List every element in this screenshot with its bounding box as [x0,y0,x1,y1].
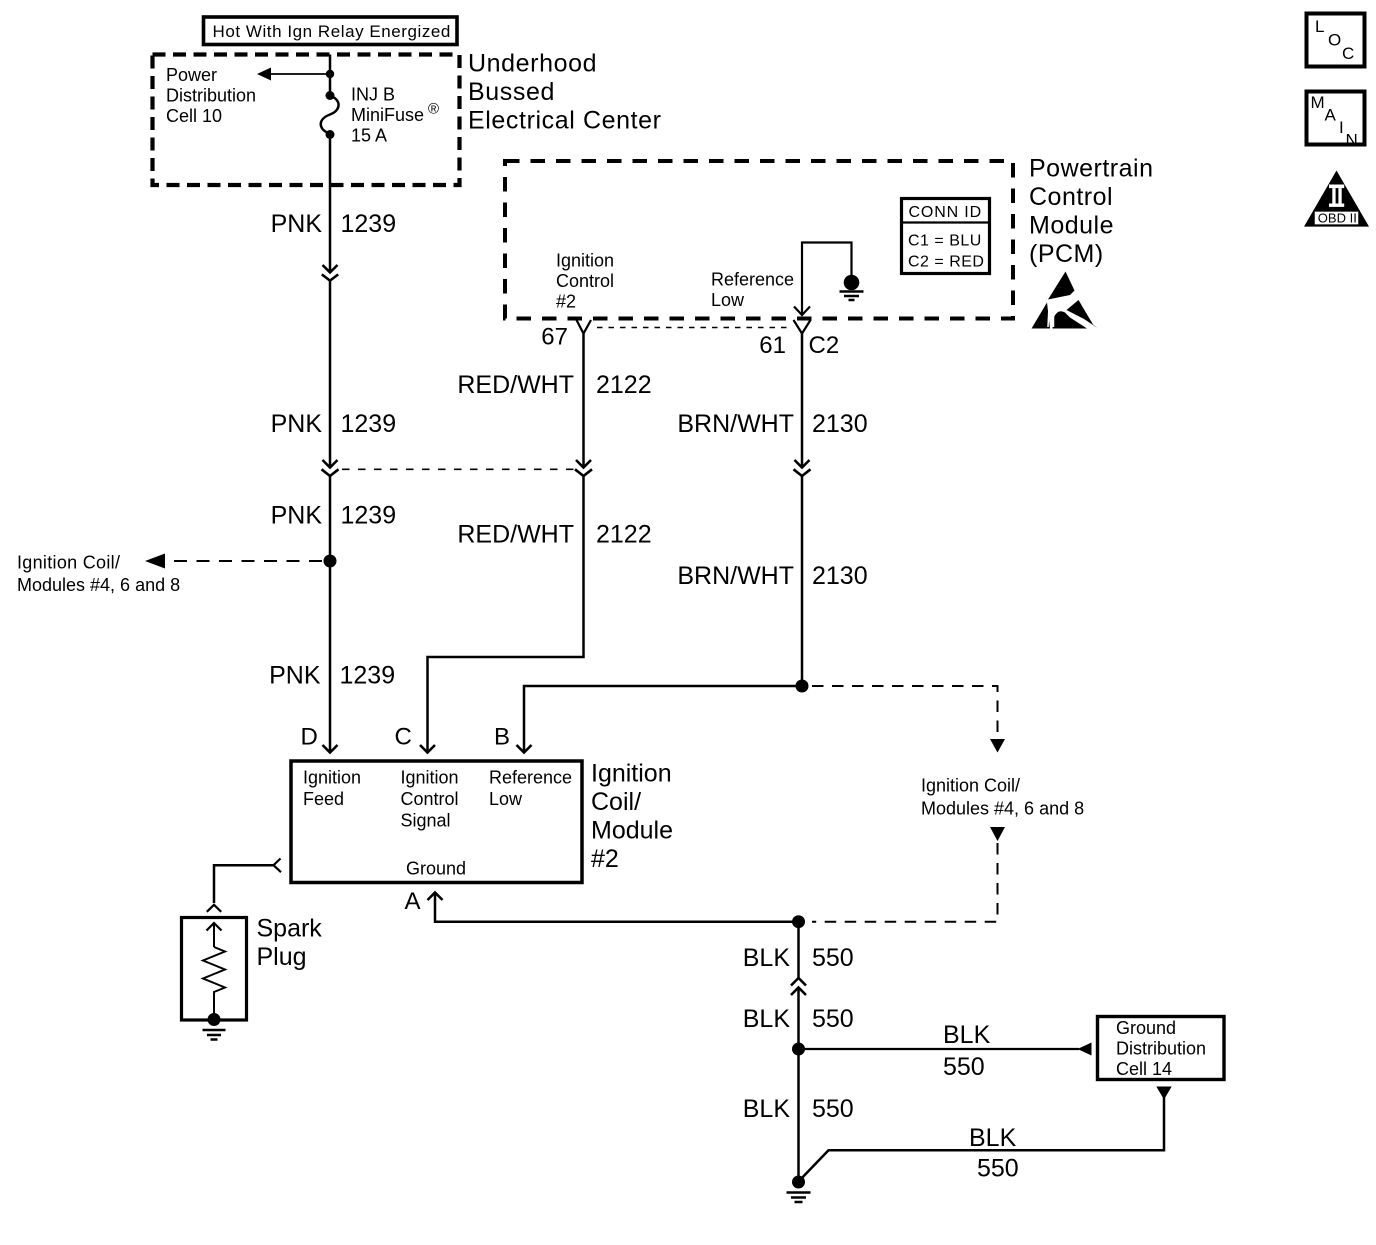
box: Powertrain Control Module PCM (dashed) [505,161,1013,319]
label: Reference Low (PCM pin) [711,270,794,311]
svg-text:Distribution: Distribution [166,86,256,106]
svg-text:INJ B: INJ B [351,85,395,105]
svg-text:1239: 1239 [340,662,396,690]
wire: BLK 550 segment 2 [797,988,800,1050]
wire: dashed branch right to Ignition Coil Modules 4 6 8 [812,686,1005,753]
svg-text:550: 550 [943,1053,985,1081]
svg-text:#2: #2 [591,845,619,873]
svg-text:A: A [1325,106,1337,125]
ground: main ground G103 [787,1176,811,1203]
svg-text:M: M [1311,93,1325,112]
svg-text:1239: 1239 [341,410,397,438]
wire: BLK 550 segment 3 down to ground [797,1049,800,1177]
connector: pin A arrow into coil ground [428,893,799,922]
svg-text:Powertrain: Powertrain [1029,155,1154,183]
svg-text:Control: Control [556,271,614,291]
label: Ignition Coil / Modules #4, 6 and 8 (right) [921,776,1084,819]
node: junction BRN/WHT splits to pin B and other modules [796,680,809,693]
svg-text:I: I [1339,118,1344,137]
resistor: spark plug gap zigzag [203,947,225,1018]
svg-text:550: 550 [977,1155,1019,1183]
box: Underhood Bussed Electrical Center (dashed) [153,55,460,186]
svg-text:Feed: Feed [303,789,344,809]
box: Spark Plug [182,918,247,1021]
icon: ESD sensitive symbol [1032,272,1098,329]
svg-text:Ground: Ground [1116,1018,1176,1038]
svg-text:OBD II: OBD II [1318,210,1357,225]
connector: arrow from Ground Distribution to ground wire [799,1087,1172,1182]
svg-text:Plug: Plug [257,943,307,971]
icon: OBD II triangle [1304,171,1369,227]
wire: coil to spark plug [214,865,274,903]
svg-text:BLK: BLK [969,1124,1017,1152]
label: BLK 550 (row 3) [743,1095,854,1123]
svg-text:Low: Low [489,789,523,809]
box: CONN ID table [902,199,990,274]
svg-text:550: 550 [812,944,854,972]
svg-text:C: C [395,724,412,751]
connector: PCM pin 61 fork [794,320,811,334]
svg-text:Control: Control [1029,183,1113,211]
wire: dashed branch continues down to ground junction [812,827,1005,922]
svg-text:Electrical Center: Electrical Center [468,107,662,135]
connector: pin B arrow into coil [517,745,532,753]
svg-text:A: A [405,888,421,915]
svg-text:Module: Module [591,817,673,845]
svg-text:D: D [301,724,318,751]
label: Powertrain Control Module (PCM) [1029,155,1154,269]
wire: dashed branch to Ignition Coil Modules 4 6 8 (left) with arrow [145,554,322,569]
connector: inline connector on PNK wire (arrow + fork) [322,460,339,476]
svg-text:BRN/WHT: BRN/WHT [677,562,794,590]
svg-text:Low: Low [711,290,745,310]
wire: branch to Ground Distribution Cell 14 with arrow [799,1043,1092,1056]
svg-text:Reference: Reference [489,768,572,788]
svg-text:C2 = RED: C2 = RED [908,254,984,271]
svg-text:Ignition: Ignition [303,768,361,788]
ground: spark plug ground [203,1013,226,1040]
svg-text:Coil/: Coil/ [591,788,641,816]
svg-text:L: L [1315,17,1324,36]
connector: pin D arrow into coil [323,745,338,753]
label: Spark Plug [257,915,323,972]
svg-text:Ignition: Ignition [556,251,614,271]
svg-text:PNK: PNK [271,210,323,238]
svg-text:BRN/WHT: BRN/WHT [677,410,794,438]
svg-text:Spark: Spark [257,915,323,943]
svg-text:Ignition Coil/: Ignition Coil/ [17,553,120,573]
svg-text:CONN ID: CONN ID [909,204,983,221]
label: Ground Distribution Cell 14 [1116,1018,1206,1079]
label: Ignition Control #2 (PCM pin) [556,251,614,312]
wire: BLK 550 segment 1 [797,922,800,978]
wire: RED/WHT lower segment down and over to pin C [428,476,584,752]
connector: spark plug boot fork [207,905,221,912]
label: PNK 1239 (row 3) [271,502,397,530]
wire: inline connector face dashed line PNK to RED/WHT [342,468,577,470]
node: junction dot to power distribution [326,70,334,78]
connector: coil high-voltage tower fork on left edge [274,859,282,873]
label: PNK 1239 (row 2) [271,410,397,438]
svg-text:550: 550 [812,1095,854,1123]
svg-text:Cell 14: Cell 14 [1116,1059,1172,1079]
box: Ignition Coil/Module #2 [291,761,582,883]
label: RED/WHT 2122 (row 1) [457,371,651,399]
svg-text:1239: 1239 [341,210,397,238]
connector: inline connector C100 on PNK wire [322,265,338,281]
label: Ignition Feed (coil pin) [303,768,361,810]
svg-text:Distribution: Distribution [1116,1039,1206,1059]
svg-text:PNK: PNK [269,662,321,690]
svg-text:Signal: Signal [401,811,451,831]
svg-text:Hot With Ign Relay Energized: Hot With Ign Relay Energized [213,22,451,41]
spark plug terminal arrow [207,923,222,947]
svg-text:BLK: BLK [743,1005,791,1033]
label: INJ B MiniFuse(R) 15 A [351,85,439,146]
connector: pin C arrow into coil [420,745,435,753]
icon: MAIN corner box [1307,92,1365,150]
wire: connector face line between 67 and 61 (thin dashed) [597,327,792,329]
icon: LOC corner box [1307,14,1365,67]
ground: PCM internal chassis ground [840,275,864,300]
svg-text:Cell 10: Cell 10 [166,106,222,126]
svg-text:PNK: PNK [271,410,323,438]
node: junction on PNK wire to other coil modules [324,555,337,568]
label: Ignition Control Signal (coil pin) [401,768,459,831]
svg-text:Ignition: Ignition [591,760,672,788]
svg-text:2130: 2130 [812,562,868,590]
svg-text:MiniFuse: MiniFuse [351,105,424,125]
svg-text:O: O [1328,31,1341,50]
box: Hot With Ign Relay Energized [204,17,458,45]
svg-text:Bussed: Bussed [468,78,555,106]
svg-text:RED/WHT: RED/WHT [457,521,574,549]
svg-text:BLK: BLK [943,1021,991,1049]
svg-text:15 A: 15 A [351,126,387,146]
svg-text:Modules #4, 6 and 8: Modules #4, 6 and 8 [17,575,180,595]
wire: PNK 1239 segment 1 (UBEC to connector C100) [329,135,332,753]
svg-text:C2: C2 [809,332,840,359]
svg-text:2122: 2122 [596,371,652,399]
connector: inline connector on BRN/WHT wire [794,460,811,476]
svg-text:Control: Control [401,789,459,809]
wire: BRN/WHT 2130 upper segment [801,334,804,467]
connector: inline connector on BLK wire (fork + arrow up) [791,978,806,995]
connector: PCM pin 67 fork [577,320,592,334]
svg-text:61: 61 [759,332,786,359]
fuse: INJ B MiniFuse 15 A [321,91,339,139]
svg-text:Power: Power [166,65,217,85]
svg-text:67: 67 [541,324,568,351]
svg-text:Modules #4, 6 and 8: Modules #4, 6 and 8 [921,799,1084,819]
label: BRN/WHT 2130 (row 2) [677,562,867,590]
svg-text:Module: Module [1029,212,1114,240]
wire: reference low over to pin B [524,686,802,752]
svg-text:®: ® [428,101,439,118]
svg-text:Ignition Coil/: Ignition Coil/ [921,776,1020,796]
svg-text:1239: 1239 [341,502,397,530]
wire: PCM internal reference-low to ground [794,243,852,316]
label: BLK 550 (row 2) [743,1005,854,1033]
label: Reference Low (coil pin) [489,768,572,810]
wire: RED/WHT 2122 upper segment [582,334,585,467]
svg-text:Ground: Ground [406,859,466,879]
svg-text:2122: 2122 [596,521,652,549]
svg-text:B: B [494,724,510,751]
label: Underhood Bussed Electrical Center [468,50,662,135]
svg-text:N: N [1346,131,1358,150]
node: ground junction A-wire / modules branch / BLK [792,915,805,928]
wire: feed from hot box into UBEC [329,55,332,94]
node: junction to Ground Distribution [792,1043,805,1056]
svg-text:550: 550 [812,1005,854,1033]
svg-text:BLK: BLK [743,944,791,972]
wire: branch to Power Distribution with arrow [257,68,330,81]
svg-text:Reference: Reference [711,270,794,290]
svg-text:Underhood: Underhood [468,50,597,78]
connector: inline connector on RED/WHT wire [575,460,592,476]
svg-text:BLK: BLK [743,1095,791,1123]
wire: BRN/WHT lower segment to junction [801,476,804,686]
label: BLK 550 (row 1) [743,944,854,972]
svg-text:RED/WHT: RED/WHT [457,371,574,399]
label: Ignition Coil / Modules #4, 6 and 8 (left) [17,553,180,596]
svg-text:#2: #2 [556,292,576,312]
svg-text:(PCM): (PCM) [1029,240,1104,268]
label: BRN/WHT 2130 (row 1) [677,410,867,438]
svg-text:PNK: PNK [271,502,323,530]
label: PNK 1239 (row 1) [271,210,397,238]
svg-text:C1 = BLU: C1 = BLU [908,233,982,250]
box: Ground Distribution Cell 14 [1098,1017,1225,1080]
svg-text:2130: 2130 [812,410,868,438]
svg-text:Ignition: Ignition [401,768,459,788]
label: PNK 1239 (row 4) [269,662,395,690]
label: Power Distribution Cell 10 [166,65,256,126]
label: Ignition Coil/Module #2 title [591,760,673,874]
svg-text:C: C [1342,44,1354,63]
label: RED/WHT 2122 (row 2) [457,521,651,549]
